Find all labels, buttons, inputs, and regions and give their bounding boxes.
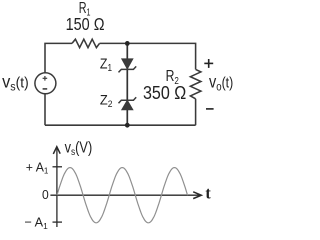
wire middle branch [126,43,128,125]
wire bottom [45,124,196,126]
wire right-bottom segment [195,99,197,125]
resistor R2 [190,69,201,98]
output plus sign [204,59,213,68]
wire left-bottom segment [44,94,46,125]
svg-text:vs(V): vs(V) [65,138,93,157]
voltage source vs [35,73,56,94]
tick -A1 [53,221,63,223]
wire top-left segment [45,43,72,73]
resistor R1 [72,39,100,47]
svg-text:150 Ω: 150 Ω [66,15,105,35]
svg-text:350 Ω: 350 Ω [143,82,186,103]
svg-text:vs(t): vs(t) [2,72,29,94]
node dot top [125,41,130,46]
sine wave of vs [57,168,188,223]
wire top-right segment [100,43,196,69]
node dot bottom [125,123,130,128]
svg-text:0: 0 [42,188,49,203]
svg-text:t: t [205,183,211,202]
zener diode Z1 [119,59,137,73]
output minus sign [206,108,214,110]
svg-text:vo(t): vo(t) [209,73,233,93]
graph x-axis [50,192,201,199]
tick +A1 [53,166,63,168]
circuit schematic: zener limiter with source waveform [0,0,238,232]
zener diode Z2 [119,97,137,110]
graph y-axis [53,147,60,227]
